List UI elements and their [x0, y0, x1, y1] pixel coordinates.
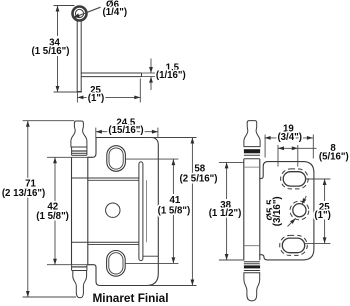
wire extension top (38 dim) — [219, 161, 244, 163]
leader line for diameter 6 — [73, 7, 101, 18]
wire extension top (58 dim) — [151, 137, 197, 139]
right center hole countersink (dashed) — [290, 201, 309, 220]
label 34 — [49, 38, 60, 49]
label (1 1/2in) — [209, 208, 242, 219]
right center hole circle — [293, 204, 306, 217]
wire extension line bottom of leg (34 dim) — [54, 91, 83, 93]
wrap bend line near bottom right — [143, 255, 158, 257]
label 42 — [47, 202, 58, 213]
label (5/16in) — [319, 151, 349, 162]
label (1in) — [88, 93, 104, 104]
right bottom finial (minaret) — [244, 262, 260, 301]
label (2 13/16in) — [2, 188, 45, 199]
right barrel left edge — [243, 159, 245, 260]
svg-text:(1/4"): (1/4") — [103, 7, 128, 18]
label 38 — [220, 200, 231, 211]
right barrel knuckle line top — [244, 166, 260, 168]
label 71 — [25, 179, 36, 190]
svg-text:Minaret Finial: Minaret Finial — [92, 291, 168, 305]
wire extension left (24.5 dim) — [95, 128, 97, 138]
svg-text:(1 5/16"): (1 5/16") — [32, 46, 70, 57]
label 41 — [170, 195, 181, 206]
wire extension bottom (25 dim right) — [305, 242, 331, 244]
bottom screw slot (obround) — [107, 251, 126, 277]
label (15/16in) — [108, 125, 143, 136]
front plate outline — [88, 138, 159, 286]
dimension 25 right line with arrows — [323, 179, 327, 243]
leader to center hole lower — [288, 218, 296, 226]
dimension 8 line with arrows — [278, 146, 317, 150]
wire extension bottom (41 dim) — [125, 262, 178, 264]
leader to center hole upper — [302, 196, 306, 204]
svg-text:(2 13/16"): (2 13/16") — [2, 188, 45, 199]
label 1.5 — [166, 62, 180, 73]
label (1/16in) — [156, 70, 186, 81]
wrap relief bottom edge — [72, 242, 140, 244]
top screw slot (obround) — [107, 146, 126, 172]
right barrel knuckle line bottom — [244, 245, 260, 247]
bottom finial (minaret) — [72, 265, 87, 298]
wrap relief top edge — [72, 178, 140, 180]
label (1 5/8in) right — [158, 205, 191, 216]
dimension 41 line with arrows — [172, 159, 176, 263]
label (3/16in) rotated — [272, 196, 283, 226]
wire extension line left (25 dim) — [76, 93, 78, 103]
wire extension right (19 dim) — [312, 135, 314, 159]
dimension 58 line with arrows — [191, 138, 195, 286]
svg-text:(1 1/2"): (1 1/2") — [209, 208, 242, 219]
wire extension left (8 dim) — [277, 145, 279, 167]
right top slot (obround) — [283, 172, 305, 186]
svg-text:(1 5/8"): (1 5/8") — [36, 211, 69, 222]
wire extension bottom (42 dim) — [47, 264, 93, 266]
dimension 38 line with arrows — [225, 162, 229, 260]
label 19 — [283, 123, 294, 134]
right plate outline — [260, 162, 314, 260]
svg-text:(3/16"): (3/16") — [272, 196, 283, 226]
svg-text:(5/16"): (5/16") — [319, 151, 349, 162]
wire extension bottom (38 dim) — [219, 259, 244, 261]
dimension 42 line with arrows — [53, 157, 57, 264]
wire extension bottom (58 dim) — [150, 285, 197, 287]
label 58 — [194, 163, 205, 174]
label (1 5/8in) left — [36, 211, 69, 222]
dimension 24.5 line with arrows — [96, 130, 158, 134]
wrap relief right edge (faint) — [146, 180, 148, 242]
top finial (minaret) — [71, 121, 87, 155]
dimension 34 line with arrows — [56, 6, 60, 93]
label dia 5.5 (rotated) — [266, 199, 277, 221]
svg-text:(1 5/8"): (1 5/8") — [158, 205, 191, 216]
label (3/4in) — [277, 132, 302, 143]
svg-text:(3/4"): (3/4") — [277, 132, 302, 143]
svg-text:(1"): (1") — [314, 210, 330, 221]
label 24.5 — [116, 117, 135, 128]
label 8 — [330, 143, 336, 154]
hinge pin barrel circle (section) — [73, 7, 87, 21]
dimension 19 line with arrows — [265, 136, 313, 140]
wrap flange strip (edge view) — [139, 162, 143, 261]
right bottom slot (obround) — [282, 238, 304, 253]
wire extension right (8 dim) — [297, 145, 299, 167]
right barrel right edge — [259, 159, 261, 260]
label (2 5/16in) — [180, 174, 218, 185]
label (1 5/16in) — [32, 46, 70, 57]
svg-text:(1"): (1") — [88, 93, 104, 104]
svg-text:(2 5/16"): (2 5/16") — [180, 174, 218, 185]
svg-text:58: 58 — [194, 163, 205, 174]
barrel left edge — [71, 157, 73, 264]
wire extension right (24.5 dim) — [157, 128, 159, 138]
svg-text:41: 41 — [170, 195, 181, 206]
dimension 1.5 arrows — [149, 59, 153, 91]
wire extension top (71 dim) — [23, 120, 75, 122]
dimension 71 line with arrows — [26, 121, 30, 297]
center hole circle — [106, 203, 120, 217]
right top slot countersink (dashed) — [281, 169, 309, 189]
wire extension top (25 dim right) — [306, 178, 331, 180]
wire extension left (19 dim) — [264, 135, 266, 158]
caption Minaret Finial — [92, 291, 168, 305]
wire extension top (42 dim) — [47, 156, 92, 158]
label (1/4in) — [103, 7, 128, 18]
svg-text:(1/16"): (1/16") — [156, 70, 186, 81]
leaf vertical leg (edge view) — [77, 21, 81, 92]
right bottom slot countersink (dashed) — [280, 235, 308, 255]
dimension 25 line with arrows — [77, 96, 140, 100]
wire extension line right (25 dim) — [139, 79, 141, 103]
label (1in) right — [314, 210, 330, 221]
wire extension top (41 dim) — [125, 158, 178, 160]
wire extension bottom (71 dim) — [23, 296, 76, 298]
barrel right edge — [87, 157, 89, 264]
label 25 — [90, 85, 101, 96]
svg-text:(15/16"): (15/16") — [108, 125, 143, 136]
label 25 right — [319, 202, 330, 213]
label dia 6 — [106, 0, 120, 11]
leaf horizontal leg (edge view) — [81, 73, 141, 77]
right top finial (minaret) — [244, 121, 260, 159]
wire extension line top of pin (34 dim) — [54, 5, 75, 7]
wire extension lines thickness (1.5 dim) — [142, 73, 156, 77]
